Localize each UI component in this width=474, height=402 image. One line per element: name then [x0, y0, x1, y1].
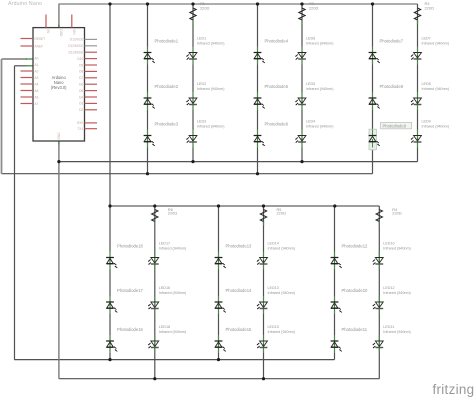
svg-text:LED13: LED13: [268, 286, 279, 290]
svg-text:Photodiode16: Photodiode16: [117, 327, 144, 332]
svg-text:(Rev3.0): (Rev3.0): [51, 85, 67, 90]
svg-text:A1: A1: [35, 63, 39, 67]
svg-text:LED1: LED1: [197, 36, 206, 40]
svg-text:D13/SCK: D13/SCK: [70, 38, 84, 42]
svg-text:LED10: LED10: [383, 241, 394, 245]
svg-text:Photodiode13: Photodiode13: [226, 244, 253, 249]
svg-text:RESET: RESET: [35, 37, 46, 41]
svg-text:Photodiode11: Photodiode11: [342, 327, 368, 332]
svg-text:A2: A2: [35, 69, 39, 73]
svg-text:220Ω: 220Ω: [200, 5, 209, 10]
svg-text:Infrared (940nm): Infrared (940nm): [306, 125, 333, 129]
svg-text:Photodiode9: Photodiode9: [383, 124, 407, 129]
svg-text:Photodiode15: Photodiode15: [226, 327, 253, 332]
svg-text:Infrared (940nm): Infrared (940nm): [197, 125, 224, 129]
svg-text:Photodiode3: Photodiode3: [155, 122, 179, 127]
svg-text:Photodiode5: Photodiode5: [265, 84, 289, 89]
svg-text:GND: GND: [59, 29, 63, 37]
svg-text:LED12: LED12: [383, 286, 394, 290]
svg-text:A7: A7: [35, 102, 39, 106]
svg-text:D12/MISO: D12/MISO: [68, 44, 83, 48]
svg-text:220Ω: 220Ω: [309, 5, 318, 10]
svg-text:Arduino Nano: Arduino Nano: [8, 1, 42, 7]
svg-text:D2: D2: [79, 108, 83, 112]
svg-text:Infrared (940nm): Infrared (940nm): [422, 87, 449, 91]
svg-text:D11/MOSI: D11/MOSI: [69, 51, 84, 55]
svg-text:Infrared (940nm): Infrared (940nm): [268, 330, 295, 334]
svg-text:D5: D5: [79, 89, 83, 93]
svg-text:Infrared (940nm): Infrared (940nm): [159, 247, 186, 251]
svg-text:220Ω: 220Ω: [392, 211, 401, 216]
svg-text:Infrared (940nm): Infrared (940nm): [268, 247, 295, 251]
svg-text:LED9: LED9: [422, 119, 431, 123]
svg-text:LED3: LED3: [197, 119, 206, 123]
svg-text:A4: A4: [35, 82, 39, 86]
svg-text:LED17: LED17: [159, 241, 170, 245]
svg-text:Photodiode17: Photodiode17: [117, 288, 144, 293]
svg-text:Infrared (940nm): Infrared (940nm): [197, 87, 224, 91]
svg-text:LED7: LED7: [422, 36, 431, 40]
svg-text:Infrared (940nm): Infrared (940nm): [383, 291, 410, 295]
svg-text:RX0: RX0: [77, 121, 83, 125]
svg-text:fritzing: fritzing: [433, 382, 474, 397]
svg-text:TX1: TX1: [77, 127, 83, 131]
svg-text:LED18: LED18: [159, 325, 170, 329]
svg-text:LED4: LED4: [306, 119, 315, 123]
svg-text:Photodiode10: Photodiode10: [342, 288, 369, 293]
svg-text:D9: D9: [79, 63, 83, 67]
svg-text:Photodiode14: Photodiode14: [226, 288, 253, 293]
svg-text:LED16: LED16: [159, 286, 170, 290]
svg-text:Photodiode12: Photodiode12: [342, 244, 369, 249]
svg-text:Photodiode2: Photodiode2: [155, 84, 179, 89]
svg-text:220Ω: 220Ω: [277, 211, 286, 216]
svg-text:Infrared (940nm): Infrared (940nm): [422, 42, 449, 46]
svg-text:Photodiode8: Photodiode8: [380, 84, 404, 89]
svg-text:LED6: LED6: [306, 36, 315, 40]
svg-text:AREF: AREF: [35, 44, 44, 48]
svg-text:LED11: LED11: [383, 325, 394, 329]
svg-text:Infrared (940nm): Infrared (940nm): [306, 87, 333, 91]
svg-text:Photodiode7: Photodiode7: [380, 39, 404, 44]
svg-text:LED2: LED2: [197, 82, 206, 86]
svg-text:A3: A3: [35, 76, 39, 80]
svg-text:A6: A6: [35, 95, 39, 99]
svg-text:Infrared (940nm): Infrared (940nm): [159, 291, 186, 295]
svg-text:Infrared (940nm): Infrared (940nm): [383, 330, 410, 334]
svg-text:LED8: LED8: [422, 82, 431, 86]
svg-text:D3: D3: [79, 102, 83, 106]
svg-text:D10: D10: [77, 57, 83, 61]
svg-text:Photodiode18: Photodiode18: [117, 244, 144, 249]
svg-text:Infrared (940nm): Infrared (940nm): [383, 247, 410, 251]
svg-text:LED14: LED14: [268, 241, 279, 245]
svg-text:D4: D4: [79, 95, 83, 99]
svg-text:A0: A0: [35, 56, 39, 60]
svg-text:GND: GND: [57, 132, 61, 140]
svg-text:220Ω: 220Ω: [425, 5, 434, 10]
svg-text:D7: D7: [79, 76, 83, 80]
svg-text:Infrared (940nm): Infrared (940nm): [422, 125, 449, 129]
svg-text:Infrared (940nm): Infrared (940nm): [306, 42, 333, 46]
svg-text:LED5: LED5: [306, 82, 315, 86]
svg-text:Infrared (940nm): Infrared (940nm): [159, 330, 186, 334]
svg-text:Infrared (940nm): Infrared (940nm): [268, 291, 295, 295]
svg-text:Photodiode1: Photodiode1: [155, 39, 179, 44]
svg-text:LED15: LED15: [268, 325, 279, 329]
svg-text:220Ω: 220Ω: [168, 211, 177, 216]
svg-text:D6: D6: [79, 83, 83, 87]
svg-text:Infrared (940nm): Infrared (940nm): [197, 42, 224, 46]
svg-text:A5: A5: [35, 89, 39, 93]
svg-text:D8: D8: [79, 70, 83, 74]
svg-text:VIN: VIN: [72, 29, 76, 35]
svg-text:Photodiode4: Photodiode4: [265, 39, 289, 44]
svg-text:Photodiode6: Photodiode6: [265, 122, 289, 127]
